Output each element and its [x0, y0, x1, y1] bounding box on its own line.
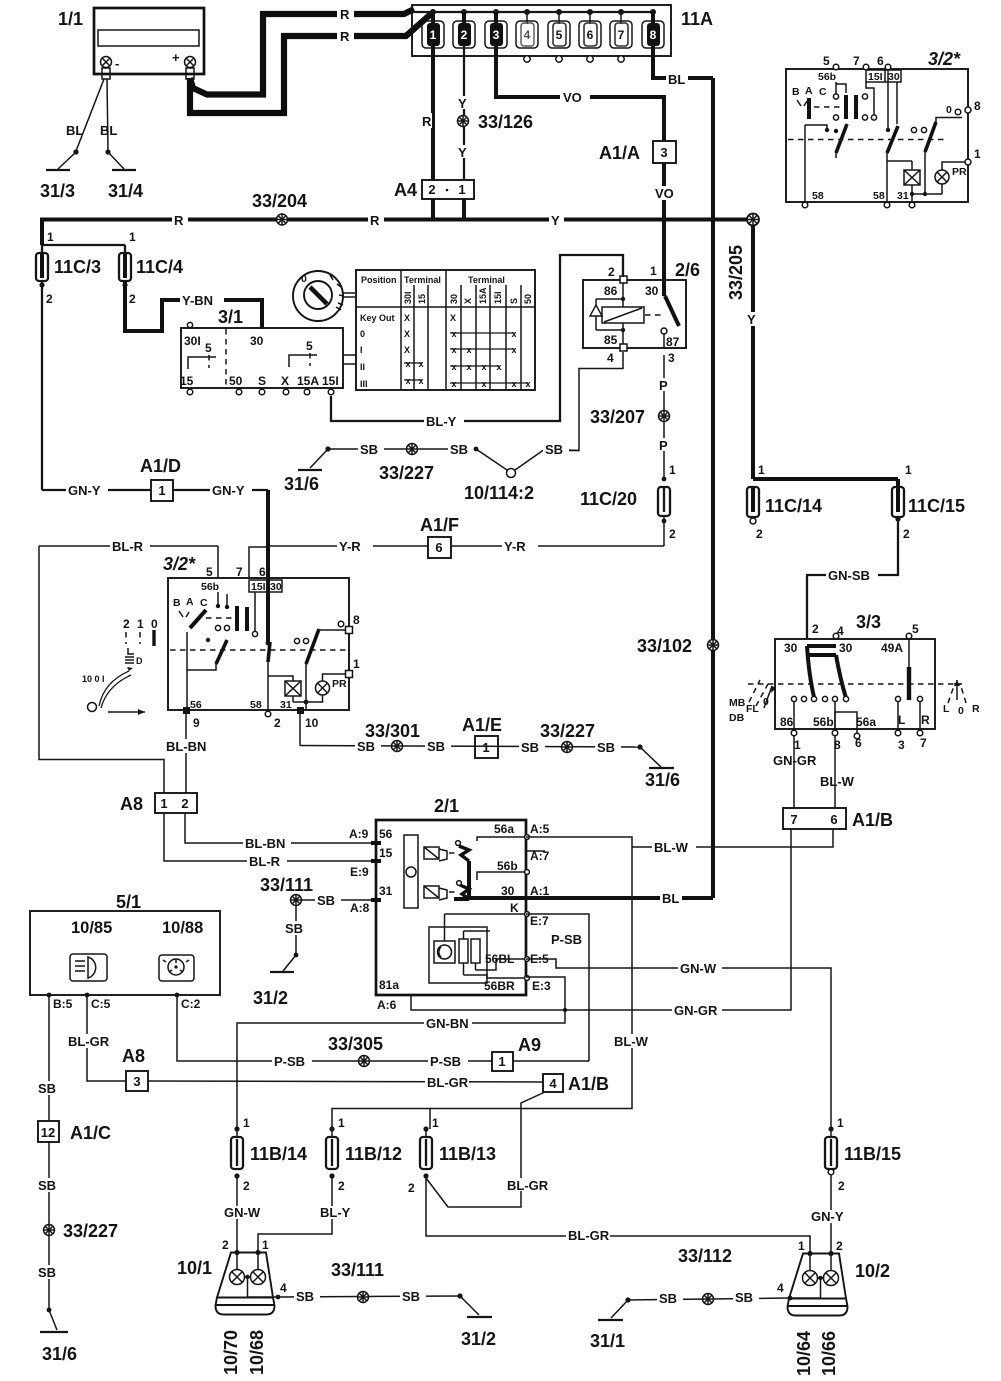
- splice 33/204: [252, 191, 307, 225]
- svg-text:2: 2: [756, 527, 763, 541]
- connector A1/B pins 7 6: [783, 808, 893, 830]
- svg-text:A:9: A:9: [349, 827, 369, 841]
- svg-text:15I: 15I: [868, 71, 883, 83]
- svg-text:1: 1: [158, 483, 165, 498]
- svg-text:x: x: [525, 379, 530, 389]
- svg-text:15A: 15A: [297, 374, 319, 388]
- wire P-SB from 5/1 C:2 to A9 line: [177, 995, 492, 1061]
- splice 33/305: [328, 1034, 383, 1067]
- fuse 11B/14: [231, 1116, 307, 1193]
- inner connector bar: [404, 835, 418, 908]
- svg-text:Terminal: Terminal: [468, 275, 505, 285]
- wire GN-GR from 2/1 E:3 to A1/B pin7: [526, 829, 791, 1018]
- svg-text:A:8: A:8: [350, 901, 370, 915]
- svg-text:R: R: [370, 213, 380, 228]
- svg-text:7: 7: [853, 54, 860, 68]
- wire SB from A1/C to ground 31/6: [36, 1142, 62, 1310]
- plug symbols: [424, 847, 455, 900]
- svg-text:A8: A8: [122, 1046, 145, 1066]
- svg-text:2: 2: [461, 28, 468, 42]
- svg-text:15: 15: [417, 294, 427, 304]
- svg-text:5: 5: [206, 565, 213, 579]
- svg-text:R: R: [972, 703, 980, 715]
- ground 31/3: [40, 152, 76, 201]
- left switch arm: [206, 638, 210, 642]
- svg-text:R: R: [921, 713, 930, 727]
- svg-text:11B/13: 11B/13: [439, 1144, 496, 1164]
- wire BL-R from A8 pin1 to 2/1: [164, 813, 376, 869]
- fuse 4: [516, 12, 538, 62]
- svg-text:30: 30: [270, 581, 282, 593]
- svg-text:-: -: [115, 56, 119, 71]
- wire Y-R to A1/F: [268, 539, 428, 554]
- fuse 11C/15: [892, 487, 965, 541]
- svg-text:x: x: [481, 362, 486, 372]
- svg-text:33/227: 33/227: [379, 463, 434, 483]
- panel light icon 10/88: [159, 955, 194, 981]
- svg-text:III: III: [360, 379, 368, 389]
- svg-text:BL-GR: BL-GR: [568, 1228, 610, 1243]
- svg-text:GN-Y: GN-Y: [811, 1209, 844, 1224]
- svg-text:3/1: 3/1: [218, 307, 243, 327]
- svg-text:50: 50: [523, 294, 533, 304]
- svg-text:3: 3: [660, 145, 667, 160]
- fuse bus wire: [413, 11, 653, 13]
- svg-text:49A: 49A: [881, 641, 903, 655]
- svg-text:33/112: 33/112: [678, 1246, 732, 1266]
- left arm group: [825, 128, 829, 132]
- wire fuse2 Y with splice 33/126: [456, 46, 471, 181]
- svg-text:1: 1: [243, 1116, 250, 1130]
- svg-text:31: 31: [280, 699, 292, 711]
- wire BL-W from 3/3 pin8 to A1/B pin6: [820, 736, 855, 808]
- svg-text:BL: BL: [66, 123, 83, 138]
- svg-text:X: X: [450, 313, 456, 323]
- svg-text:6: 6: [830, 812, 837, 827]
- lamp in 3/2* first: [887, 160, 912, 162]
- splice 33/227 lower: [540, 721, 595, 753]
- svg-text:GN-SB: GN-SB: [828, 568, 870, 583]
- svg-text:30I: 30I: [403, 291, 413, 304]
- svg-text:+: +: [172, 50, 180, 65]
- svg-text:A8: A8: [120, 794, 143, 814]
- svg-text:31/2: 31/2: [461, 1329, 496, 1349]
- svg-text:1: 1: [498, 1054, 505, 1069]
- svg-text:A1/C: A1/C: [70, 1123, 111, 1143]
- svg-text:56: 56: [379, 827, 393, 841]
- turn signal lamp 10/1: [177, 1238, 287, 1315]
- svg-text:86: 86: [604, 284, 618, 298]
- svg-text:x: x: [466, 345, 471, 355]
- wire to fuses 11C/14 11C/15: [753, 463, 912, 488]
- svg-text:7: 7: [618, 28, 625, 42]
- svg-text:33/227: 33/227: [63, 1221, 118, 1241]
- svg-text:1: 1: [262, 1238, 269, 1252]
- svg-text:x: x: [511, 345, 516, 355]
- svg-text:SB: SB: [296, 1289, 314, 1304]
- svg-text:SB: SB: [38, 1178, 56, 1193]
- svg-text:2: 2: [408, 1181, 415, 1195]
- svg-text:11B/14: 11B/14: [250, 1144, 307, 1164]
- svg-text:x: x: [511, 329, 516, 339]
- svg-text:33/207: 33/207: [590, 407, 645, 427]
- fuse 11C/20: [580, 487, 676, 546]
- svg-text:1: 1: [758, 463, 765, 477]
- wire P to fuse 11C/20: [657, 421, 676, 481]
- fuse 8: [642, 12, 664, 48]
- svg-text:6: 6: [435, 540, 442, 555]
- svg-text:1: 1: [432, 1116, 439, 1130]
- wire GN-Y from A1/D to 3/2* pin6: [173, 483, 268, 643]
- svg-text:1: 1: [47, 230, 54, 244]
- relay diode: [596, 298, 623, 300]
- svg-text:4: 4: [607, 351, 614, 365]
- svg-text:C: C: [200, 597, 208, 609]
- svg-text:6: 6: [259, 565, 266, 579]
- 56b contacts: [217, 592, 219, 604]
- svg-text:56a: 56a: [494, 822, 514, 836]
- svg-text:31/1: 31/1: [590, 1331, 625, 1351]
- svg-text:33/204: 33/204: [252, 191, 307, 211]
- ignition key symbol: [293, 271, 355, 321]
- svg-text:33/205: 33/205: [726, 245, 746, 300]
- splice 33/207: [590, 407, 670, 427]
- wire from A1/B pin4 to 11B/13 pin2: [426, 1092, 549, 1207]
- fuse 11B/13: [408, 1116, 496, 1195]
- ground 31/6 top with SB chain 33/227: [284, 442, 476, 494]
- fuse 1: [422, 12, 444, 48]
- svg-text:SB: SB: [360, 442, 378, 457]
- wire BL-GR from 5/1 C:5 to A8 pin3: [66, 995, 126, 1081]
- pins of 5/1: [47, 993, 201, 1011]
- svg-text:x: x: [418, 359, 423, 369]
- svg-text:2: 2: [274, 716, 281, 730]
- svg-text:BL-W: BL-W: [820, 774, 855, 789]
- svg-text:BL-BN: BL-BN: [245, 836, 285, 851]
- svg-text:1: 1: [974, 147, 981, 161]
- svg-text:0: 0: [958, 705, 964, 717]
- relay 2/6: [583, 260, 700, 365]
- wire battery minus to grounds, BL: [66, 79, 117, 155]
- svg-text:7: 7: [920, 736, 927, 750]
- svg-text:30: 30: [645, 284, 659, 298]
- svg-text:33/227: 33/227: [540, 721, 595, 741]
- svg-text:Terminal: Terminal: [404, 275, 441, 285]
- ground 31/6 bottom left: [40, 1308, 77, 1364]
- svg-text:P-SB: P-SB: [274, 1054, 305, 1069]
- svg-text:II: II: [360, 362, 365, 372]
- dashed main row: [788, 139, 945, 141]
- connector A9 pin 1: [492, 1035, 589, 1071]
- svg-text:Y-R: Y-R: [339, 539, 361, 554]
- svg-text:A1/A: A1/A: [599, 143, 640, 163]
- node MB FL 0 lever left of 3/3: [729, 680, 776, 724]
- svg-text:1: 1: [458, 182, 465, 197]
- svg-text:3/2*: 3/2*: [928, 49, 961, 69]
- svg-text:10/114:2: 10/114:2: [464, 483, 534, 503]
- svg-text:58: 58: [873, 190, 885, 202]
- svg-text:2: 2: [243, 1179, 250, 1193]
- svg-text:81a: 81a: [379, 978, 399, 992]
- splice 33/111 upper and ground 31/2: [253, 875, 376, 1008]
- connector A1/E pin 1: [462, 715, 502, 758]
- right arm group: [911, 127, 916, 132]
- connector A8 pin 3: [122, 1046, 148, 1091]
- wire BL-Y from 11B/12 to 10/1 pin1: [258, 1176, 356, 1252]
- svg-text:SB: SB: [659, 1291, 677, 1306]
- relay contacts inside 2/1: [456, 841, 461, 846]
- svg-text:2: 2: [428, 182, 435, 197]
- svg-text:58: 58: [250, 699, 262, 711]
- svg-text:1: 1: [837, 1116, 844, 1130]
- svg-text:2/6: 2/6: [675, 260, 700, 280]
- pin 8 wire: [318, 629, 348, 631]
- fuse 3: [485, 12, 507, 48]
- svg-text:33/305: 33/305: [328, 1034, 383, 1054]
- svg-text:A1/F: A1/F: [420, 515, 459, 535]
- svg-text:15: 15: [379, 846, 393, 860]
- svg-text:L: L: [943, 703, 950, 715]
- svg-text:56BR: 56BR: [484, 979, 515, 993]
- svg-text:33/301: 33/301: [365, 721, 420, 741]
- svg-text:1: 1: [650, 264, 657, 278]
- svg-text:4: 4: [549, 1076, 557, 1091]
- wire VO from A1/A to relay 2/6 pin1: [653, 163, 679, 296]
- svg-text:SB: SB: [735, 1290, 753, 1305]
- svg-text:10/1: 10/1: [177, 1258, 212, 1278]
- wire P-SB from 2/1 E:7 down: [526, 914, 589, 1061]
- svg-text:BL-W: BL-W: [654, 840, 689, 855]
- svg-text:Y: Y: [747, 312, 756, 327]
- svg-text:x: x: [511, 379, 516, 389]
- fuse 11C/14: [747, 487, 822, 541]
- svg-text:56: 56: [190, 699, 202, 711]
- battery 1/1: [58, 8, 204, 79]
- svg-text:P: P: [659, 438, 668, 453]
- 56b contacts first switch: [835, 82, 837, 94]
- svg-text:GN-Y: GN-Y: [212, 483, 245, 498]
- fuse 11B/15: [825, 1116, 901, 1193]
- headlamp switch 3/2* second: [163, 554, 360, 730]
- svg-text:A: A: [805, 85, 813, 97]
- svg-text:87: 87: [666, 335, 680, 349]
- svg-text:E:7: E:7: [530, 914, 549, 928]
- svg-text:1: 1: [353, 657, 360, 671]
- wire Y-R from A1/F to 11C/20: [451, 539, 664, 554]
- lamp monitor block: [429, 927, 487, 983]
- svg-text:2: 2: [123, 617, 130, 631]
- svg-text:3: 3: [668, 351, 675, 365]
- svg-text:33/111: 33/111: [260, 875, 313, 895]
- svg-text:BL-Y: BL-Y: [426, 414, 457, 429]
- svg-text:30: 30: [449, 294, 459, 304]
- svg-text:L: L: [898, 713, 905, 727]
- svg-text:2: 2: [608, 265, 615, 279]
- svg-text:x: x: [481, 379, 486, 389]
- svg-text:GN-Y: GN-Y: [68, 483, 101, 498]
- svg-text:15A: 15A: [478, 287, 488, 304]
- svg-text:x: x: [496, 362, 501, 372]
- svg-text:12: 12: [41, 1125, 55, 1140]
- svg-text:X: X: [463, 298, 473, 304]
- wire main feed R/Y horizontal: [42, 213, 753, 245]
- svg-text:BL: BL: [662, 891, 679, 906]
- svg-text:2: 2: [222, 1238, 229, 1252]
- svg-text:56b: 56b: [813, 715, 834, 729]
- svg-text:31/6: 31/6: [284, 474, 319, 494]
- svg-text:P-SB: P-SB: [551, 932, 582, 947]
- wire BL-BN from 3/2* pin9 to A8 pin2: [164, 714, 212, 793]
- svg-text:SB: SB: [597, 740, 615, 755]
- svg-text:SB: SB: [402, 1289, 420, 1304]
- svg-text:2: 2: [338, 1179, 345, 1193]
- wire GN-W from 11B/14 to 10/1 pin2: [222, 1176, 266, 1252]
- splice 33/205 on main line: [726, 214, 759, 301]
- svg-text:10/88: 10/88: [162, 919, 203, 937]
- wire GN-GR from 3/3 pin1 to A1/B pin7: [773, 736, 817, 808]
- connector A1/B pin 4: [543, 1074, 609, 1094]
- svg-text:3: 3: [898, 738, 905, 752]
- svg-text:SB: SB: [521, 740, 539, 755]
- svg-text:BL: BL: [668, 72, 685, 87]
- svg-text:BL-GR: BL-GR: [427, 1075, 469, 1090]
- svg-text:56b: 56b: [818, 71, 836, 83]
- svg-text:A1/B: A1/B: [852, 810, 893, 830]
- svg-text:56b: 56b: [497, 859, 518, 873]
- connector A1/C pin 12: [38, 1121, 111, 1143]
- wire A:7 stub: [526, 850, 545, 852]
- svg-text:BL-W: BL-W: [614, 1034, 649, 1049]
- svg-text:30: 30: [888, 71, 900, 83]
- svg-text:2: 2: [903, 527, 910, 541]
- svg-text:BL-R: BL-R: [249, 854, 281, 869]
- svg-text:I: I: [360, 345, 363, 355]
- svg-text:A4: A4: [394, 180, 417, 200]
- svg-text:1: 1: [129, 230, 136, 244]
- svg-text:R: R: [174, 213, 184, 228]
- svg-text:x: x: [466, 362, 471, 372]
- svg-text:30I: 30I: [184, 334, 201, 348]
- svg-text:11C/3: 11C/3: [54, 257, 101, 277]
- svg-text:4: 4: [777, 1281, 784, 1295]
- svg-text:9: 9: [193, 716, 200, 730]
- headlamp icon 10/85: [70, 954, 107, 981]
- wire SB from 10/1 pin4 with splice 33/111 to ground 31/2: [278, 1260, 496, 1349]
- wire battery plus feed upper R: [190, 6, 414, 95]
- svg-text:31/2: 31/2: [253, 988, 288, 1008]
- wire fuse3 VO to A1/A: [496, 46, 664, 140]
- svg-text:30: 30: [250, 334, 264, 348]
- svg-text:Y: Y: [551, 213, 560, 228]
- wire BL-W vertical down to 11B/12 11B/13: [332, 847, 654, 1129]
- turn signal lamp 10/2: [777, 1239, 890, 1316]
- ignition switch 3/1: [180, 307, 356, 395]
- svg-text:5: 5: [205, 341, 212, 355]
- wire BL-Y from 3/1 15I to relay 2/6 pin 2: [331, 255, 623, 429]
- svg-text:E:9: E:9: [350, 865, 369, 879]
- svg-text:B: B: [173, 597, 181, 609]
- svg-text:SB: SB: [38, 1081, 56, 1096]
- svg-text:1: 1: [669, 463, 676, 477]
- headlamp switch 3/2* first: [786, 49, 981, 208]
- svg-text:5: 5: [306, 339, 313, 353]
- turn signal switch 3/3: [748, 612, 962, 752]
- svg-text:BL-R: BL-R: [112, 539, 144, 554]
- relay switch: [645, 314, 663, 316]
- svg-text:8: 8: [974, 99, 981, 113]
- svg-text:2: 2: [812, 622, 819, 636]
- splice 33/301: [365, 721, 420, 752]
- wire BL-R left loop to A8 pin1: [39, 546, 164, 793]
- svg-text:31/6: 31/6: [42, 1344, 77, 1364]
- svg-text:DB: DB: [729, 712, 745, 724]
- svg-text:S: S: [258, 374, 266, 388]
- svg-text:8: 8: [353, 613, 360, 627]
- wire GN-W from 2/1 E:5 to 11B/15: [526, 959, 831, 1129]
- svg-text:11B/12: 11B/12: [345, 1144, 402, 1164]
- svg-text:4: 4: [524, 28, 531, 42]
- svg-text:1: 1: [430, 28, 437, 42]
- svg-text:1/1: 1/1: [58, 9, 83, 29]
- svg-text:X: X: [404, 313, 410, 323]
- svg-text:X: X: [404, 329, 410, 339]
- svg-text:1: 1: [798, 1239, 805, 1253]
- wire fuse1 to A4 pin2, R: [421, 46, 433, 181]
- svg-text:BL-GR: BL-GR: [507, 1178, 549, 1193]
- svg-text:R: R: [422, 114, 432, 129]
- center arm group: [887, 69, 889, 128]
- svg-text:A1/D: A1/D: [140, 456, 181, 476]
- svg-text:A:5: A:5: [530, 822, 550, 836]
- svg-text:X: X: [404, 345, 410, 355]
- ground 31/6 right: [637, 744, 680, 790]
- svg-text:X: X: [281, 374, 289, 388]
- svg-text:10/2: 10/2: [855, 1261, 890, 1281]
- svg-text:2: 2: [129, 292, 136, 306]
- svg-text:6: 6: [877, 54, 884, 68]
- main dashed row: [170, 649, 347, 651]
- svg-text:3: 3: [133, 1074, 140, 1089]
- svg-text:10/70: 10/70: [221, 1330, 241, 1375]
- svg-text:10: 10: [305, 716, 319, 730]
- 30 arm: [266, 641, 271, 646]
- wire fuse8 BL: [653, 46, 713, 87]
- svg-text:15I: 15I: [322, 374, 339, 388]
- svg-text:x: x: [405, 376, 410, 386]
- PR lamp: [316, 681, 330, 695]
- svg-text:33/111: 33/111: [331, 1260, 384, 1280]
- svg-text:7: 7: [236, 565, 243, 579]
- svg-text:11C/20: 11C/20: [580, 489, 637, 509]
- svg-text:P-SB: P-SB: [430, 1054, 461, 1069]
- fuse 7: [610, 12, 632, 62]
- svg-text:15: 15: [180, 374, 194, 388]
- svg-text:GN-BN: GN-BN: [426, 1016, 469, 1031]
- svg-text:MB: MB: [729, 697, 746, 709]
- svg-text:2: 2: [46, 292, 53, 306]
- svg-text:30: 30: [784, 641, 798, 655]
- wire BL-GR from 11B/13 to 10/2 pin1: [426, 1176, 810, 1252]
- svg-text:3/3: 3/3: [856, 612, 881, 632]
- bulb socket 10/114:2: [464, 442, 579, 503]
- connector A8 pins 1 2: [120, 793, 197, 814]
- svg-text:30: 30: [501, 884, 515, 898]
- svg-text:Y: Y: [458, 96, 467, 111]
- svg-text:31/4: 31/4: [108, 181, 143, 201]
- svg-text:56b: 56b: [201, 581, 219, 593]
- wire relay pin4 to SB ground line: [545, 352, 623, 451]
- svg-text:15I: 15I: [493, 291, 503, 304]
